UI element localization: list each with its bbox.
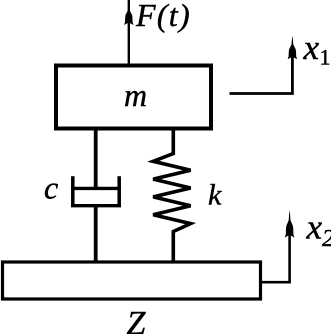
svg-text:k: k (208, 179, 222, 212)
svg-text:x: x (306, 208, 323, 247)
base block Z (3, 262, 261, 299)
spring k (153, 128, 190, 263)
svg-text:F(t): F(t) (135, 0, 191, 33)
coordinate mark x2 wire (259, 210, 294, 283)
damper piston plate (71, 187, 121, 190)
damper rod lower (94, 206, 98, 263)
svg-text:2: 2 (322, 226, 331, 252)
svg-text:m: m (124, 77, 147, 113)
svg-text:Z: Z (127, 305, 147, 334)
mass block m (56, 66, 211, 129)
label x1 (303, 28, 331, 70)
svg-text:x: x (303, 28, 320, 67)
force arrow F(t) (124, 0, 134, 64)
svg-text:1: 1 (320, 45, 331, 70)
svg-text:c: c (44, 170, 58, 206)
coordinate mark x1 wire (230, 36, 298, 94)
damper rod upper (94, 128, 98, 189)
label x2 (306, 208, 331, 253)
damper cup c (71, 176, 121, 207)
